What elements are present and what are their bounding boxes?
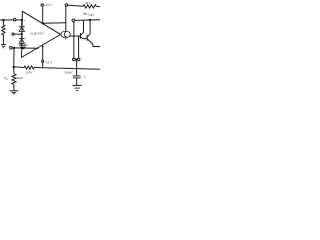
svg-text:30 K: 30 K: [85, 1, 91, 5]
terminal input A: [13, 19, 16, 22]
transistor Q1 base bar: [79, 33, 81, 39]
svg-text:−15 V: −15 V: [44, 61, 52, 65]
terminal -15V: [42, 60, 44, 62]
node E junction dot on rail: [89, 19, 91, 21]
terminal IABC pin: [72, 19, 75, 22]
ground G1: [1, 44, 6, 46]
terminal output pin 1: [73, 58, 76, 61]
transistor Q2 emitter with arrow: [88, 39, 93, 46]
resistor RA: [13, 67, 15, 74]
node B junction dot at diode chain: [21, 19, 23, 21]
wire bus left segment: [14, 66, 24, 69]
wire diode chain middle segment: [21, 31, 23, 38]
wire input C to op-amp bottom edge: [12, 47, 38, 49]
node F junction dot between output pins: [75, 58, 77, 60]
wire output node down to capacitor: [76, 59, 78, 76]
terminal input B: [12, 33, 14, 35]
node I junction dot on op-amp bottom edge: [42, 45, 44, 47]
wire output to right edge: [93, 46, 100, 48]
wire bus right segment: [34, 68, 100, 70]
wire -15V terminal to bus: [42, 62, 44, 67]
ground G2: [19, 44, 27, 46]
current source CS1 (double circle): [61, 32, 67, 38]
wire Q1 emitter to Q2 base: [84, 37, 87, 40]
resistor R1: [2, 20, 4, 25]
wire resistor R2 to right edge: [96, 5, 100, 7]
wire current source bottom stub: [65, 37, 67, 39]
wire diode chain lower segment: [21, 43, 23, 45]
ground G3: [73, 84, 82, 86]
svg-text:ABC: ABC: [89, 14, 94, 17]
wire IABC rail: [75, 19, 100, 22]
capacitor C1 plates: [73, 75, 81, 77]
op-amp U1 triangle: [22, 11, 61, 57]
node D junction dot on op-amp top edge: [42, 22, 44, 24]
wire strap between output pins: [75, 58, 77, 60]
terminal input C: [10, 46, 13, 49]
wire node G down to bus: [13, 48, 15, 67]
wire vertical V2 from output node down: [78, 36, 80, 58]
terminal +15V left: [41, 4, 43, 6]
wire +15V right vertical into current source: [65, 6, 67, 32]
svg-text:+15 V: +15 V: [44, 3, 52, 7]
transistor Q2 base bar: [86, 35, 88, 41]
wire input A horizontal: [0, 19, 22, 21]
wire diode chain upper segment: [21, 20, 23, 27]
resistor R3 100K: [24, 66, 34, 69]
ground G4: [10, 90, 19, 92]
node G junction dot: [13, 47, 15, 49]
wire +15V right to resistor: [68, 5, 83, 6]
diode D2: [19, 38, 25, 40]
node H junction dot on bus: [13, 66, 16, 69]
svg-text:100pF: 100pF: [64, 71, 72, 75]
label IABC with arrow: [83, 13, 87, 15]
node A junction dot: [2, 19, 5, 22]
svg-text:100 K: 100 K: [25, 70, 32, 74]
transistor Q2 collector: [88, 20, 90, 36]
svg-text:(SEL): (SEL): [17, 76, 24, 80]
wire vertical V1 from IABC pin to output node: [73, 22, 75, 58]
wire input B: [14, 33, 22, 35]
wire op-amp output to Q1 base: [70, 35, 80, 37]
transistor Q1 emitter: [81, 37, 84, 39]
wire V+ horizontal to current source: [43, 22, 66, 25]
resistor R2 30K: [83, 5, 96, 8]
terminal +15V right: [65, 4, 67, 6]
terminal output pin 2: [77, 58, 80, 61]
wire capacitor to ground: [76, 78, 78, 86]
wire op-amp V- down to -15V terminal: [42, 46, 44, 60]
wire +15V left vertical: [42, 6, 44, 23]
node C junction dot: [21, 33, 23, 35]
transistor Q1 collector: [81, 20, 84, 35]
diode D1: [19, 26, 25, 28]
svg-text:½LM13700: ½LM13700: [30, 32, 44, 36]
